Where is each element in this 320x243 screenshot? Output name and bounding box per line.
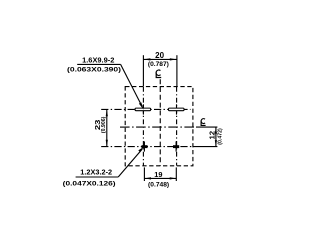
- arrowhead leader left pad: [138, 147, 144, 153]
- crosshair vertical right pad: [175, 141, 177, 151]
- svg-text:(0.906): (0.906): [101, 117, 107, 134]
- slot hole left 1.6x9.9: [135, 108, 151, 111]
- centerline vertical part axis: [159, 79, 161, 165]
- pad left 1.2x3.2 filled: [142, 145, 148, 148]
- centerline horizontal pad row: [101, 146, 193, 148]
- dimension line 19: [144, 177, 176, 179]
- extension line 20-dim right: [176, 55, 178, 86]
- svg-text:1.2X3.2-2: 1.2X3.2-2: [80, 167, 112, 176]
- extension line 20-dim left: [142, 55, 144, 86]
- svg-text:(0.748): (0.748): [148, 181, 169, 188]
- arrowhead 12-dim top: [215, 127, 217, 133]
- centerline vertical right column: [176, 87, 178, 166]
- slot hole right 1.6x9.9: [169, 108, 185, 111]
- arrowhead 20-dim right: [170, 58, 177, 60]
- dimension line 23 vertical: [106, 109, 108, 146]
- leader line to left slot: [121, 64, 142, 106]
- centerline horizontal pad row extension to 12-dim: [193, 146, 217, 148]
- crosshair vertical right slot: [176, 104, 178, 114]
- arrowhead 19-dim left: [145, 177, 152, 179]
- svg-text:(0.047X0.126): (0.047X0.126): [63, 181, 116, 188]
- svg-text:19: 19: [154, 170, 162, 179]
- centre-line symbol right: [201, 119, 206, 126]
- pad right 1.2x3.2 filled: [173, 145, 179, 148]
- extension line 19-dim right: [175, 167, 177, 181]
- centerline vertical left column: [142, 87, 144, 166]
- svg-text:(0.787): (0.787): [148, 61, 169, 68]
- crosshair vertical left pad: [143, 141, 145, 151]
- arrowhead 12-dim bottom: [215, 140, 217, 146]
- svg-text:(0.472): (0.472): [217, 128, 223, 145]
- centerline horizontal slot row: [101, 108, 190, 110]
- centerline horizontal part axis extension to 12-dim: [196, 126, 217, 128]
- leader line to left pad: [118, 149, 142, 177]
- arrowhead 19-dim right: [170, 177, 177, 179]
- svg-text:12: 12: [210, 131, 217, 140]
- dimension line 12 vertical: [215, 127, 217, 147]
- centerline horizontal part axis: [120, 126, 196, 128]
- arrowhead 23-dim bottom: [106, 140, 108, 147]
- arrowhead 20-dim left: [144, 58, 151, 60]
- callout underline slot size: [77, 63, 120, 65]
- dimension line 20: [143, 58, 176, 60]
- centre-line symbol top: [156, 70, 161, 77]
- svg-text:(0.063X0.390): (0.063X0.390): [67, 67, 121, 74]
- crosshair vertical left slot: [142, 104, 144, 114]
- arrowhead 23-dim top: [106, 110, 108, 117]
- extension line 19-dim left: [143, 167, 145, 181]
- svg-text:1.6X9.9-2: 1.6X9.9-2: [82, 55, 114, 64]
- svg-text:20: 20: [155, 51, 164, 60]
- callout underline pad size: [76, 176, 119, 178]
- arrowhead leader left slot: [139, 102, 144, 110]
- part outline dashed rect: [125, 87, 193, 166]
